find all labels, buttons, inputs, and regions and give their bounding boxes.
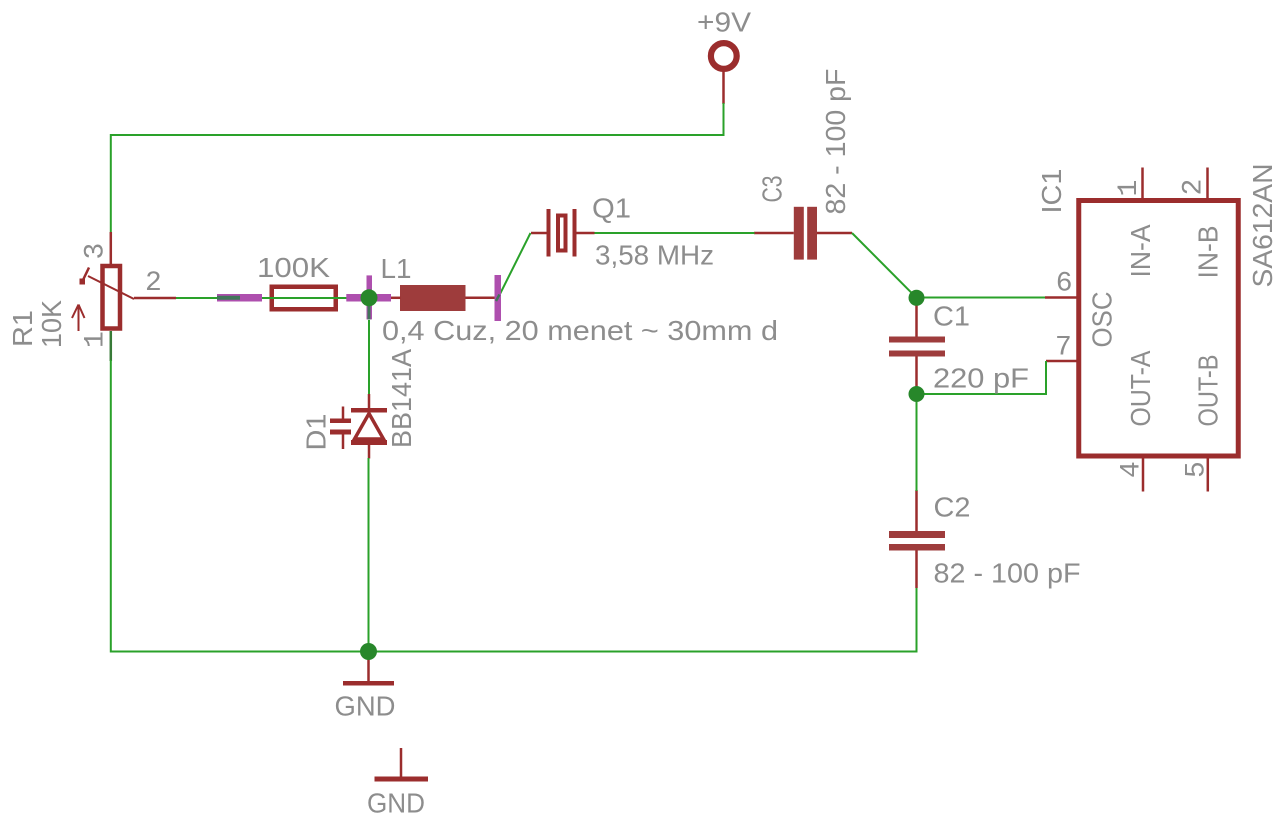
svg-text:BB141A: BB141A [386,349,417,448]
svg-text:C1: C1 [933,301,970,332]
svg-text:3,58 MHz: 3,58 MHz [595,240,714,271]
svg-text:1: 1 [1114,180,1145,197]
svg-text:2: 2 [1179,179,1210,196]
svg-text:IC1: IC1 [1036,169,1067,214]
svg-text:5: 5 [1182,461,1213,478]
svg-text:+9V: +9V [697,7,751,38]
svg-text:C2: C2 [934,492,971,523]
svg-text:L1: L1 [381,253,412,284]
svg-text:100K: 100K [257,252,330,283]
svg-text:D1: D1 [301,414,332,451]
svg-text:3: 3 [81,243,112,260]
svg-text:7: 7 [1055,333,1072,364]
svg-text:IN-A: IN-A [1125,224,1156,277]
svg-text:0,4 Cuz, 20 menet ~ 30mm d: 0,4 Cuz, 20 menet ~ 30mm d [382,315,778,346]
svg-text:1: 1 [81,331,112,348]
svg-text:GND: GND [335,691,396,722]
svg-text:220 pF: 220 pF [933,363,1029,394]
svg-text:GND: GND [367,788,425,819]
svg-text:C3: C3 [757,176,788,203]
svg-text:OSC: OSC [1087,292,1118,348]
svg-text:IN-B: IN-B [1193,226,1224,279]
svg-text:4: 4 [1117,461,1148,478]
svg-text:82 - 100 pF: 82 - 100 pF [820,69,851,215]
svg-text:OUT-B: OUT-B [1193,355,1224,427]
svg-text:10K: 10K [36,300,67,348]
svg-text:82 - 100 pF: 82 - 100 pF [934,558,1081,589]
svg-text:Q1: Q1 [592,193,631,224]
svg-text:6: 6 [1056,269,1073,300]
svg-text:OUT-A: OUT-A [1125,350,1156,426]
svg-text:SA612AN: SA612AN [1247,164,1278,288]
svg-text:R1: R1 [7,310,38,347]
svg-text:2: 2 [145,268,162,299]
